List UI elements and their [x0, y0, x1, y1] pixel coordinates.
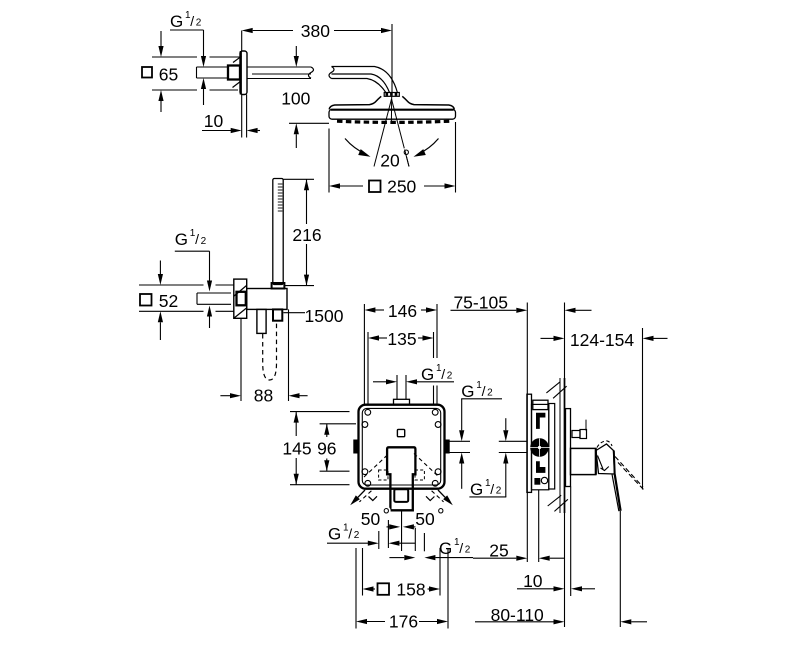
- svg-text:1500: 1500: [305, 306, 344, 326]
- svg-text:°: °: [383, 506, 391, 527]
- svg-text:50: 50: [415, 509, 435, 529]
- svg-text:50: 50: [361, 509, 381, 529]
- svg-text:2: 2: [201, 236, 207, 247]
- svg-text:G: G: [170, 12, 183, 31]
- svg-text:52: 52: [159, 291, 178, 311]
- svg-text:25: 25: [489, 541, 508, 561]
- svg-text:/: /: [190, 13, 194, 29]
- svg-text:146: 146: [388, 301, 417, 321]
- svg-text:/: /: [348, 525, 352, 541]
- svg-text:100: 100: [281, 89, 310, 109]
- svg-text:°: °: [437, 506, 445, 527]
- svg-text:10: 10: [523, 571, 543, 591]
- svg-text:G: G: [461, 382, 474, 401]
- svg-text:G: G: [470, 480, 483, 499]
- svg-text:G: G: [328, 524, 341, 543]
- svg-text:380: 380: [301, 21, 330, 41]
- svg-text:/: /: [441, 366, 445, 382]
- svg-text:2: 2: [496, 486, 502, 497]
- svg-text:65: 65: [159, 65, 178, 85]
- svg-text:10: 10: [204, 111, 224, 131]
- svg-text:216: 216: [292, 225, 321, 245]
- svg-text:20: 20: [380, 151, 400, 171]
- svg-text:/: /: [482, 383, 486, 399]
- svg-text:75-105: 75-105: [453, 292, 508, 312]
- svg-text:2: 2: [447, 371, 453, 382]
- svg-text:/: /: [490, 481, 494, 497]
- svg-text:145: 145: [282, 439, 311, 459]
- svg-text:/: /: [459, 540, 463, 556]
- svg-text:2: 2: [354, 530, 360, 541]
- svg-text:250: 250: [387, 176, 416, 196]
- svg-text:G: G: [175, 230, 188, 249]
- svg-text:2: 2: [465, 545, 471, 556]
- svg-text:2: 2: [487, 388, 493, 399]
- svg-text:G: G: [421, 365, 434, 384]
- svg-text:88: 88: [254, 386, 273, 406]
- svg-text:/: /: [195, 231, 199, 247]
- svg-text:G: G: [439, 539, 452, 558]
- svg-text:176: 176: [389, 612, 418, 632]
- svg-text:96: 96: [317, 439, 336, 459]
- svg-text:124-154: 124-154: [570, 330, 634, 350]
- svg-text:2: 2: [196, 18, 202, 29]
- svg-text:135: 135: [387, 329, 416, 349]
- svg-text:158: 158: [396, 579, 425, 599]
